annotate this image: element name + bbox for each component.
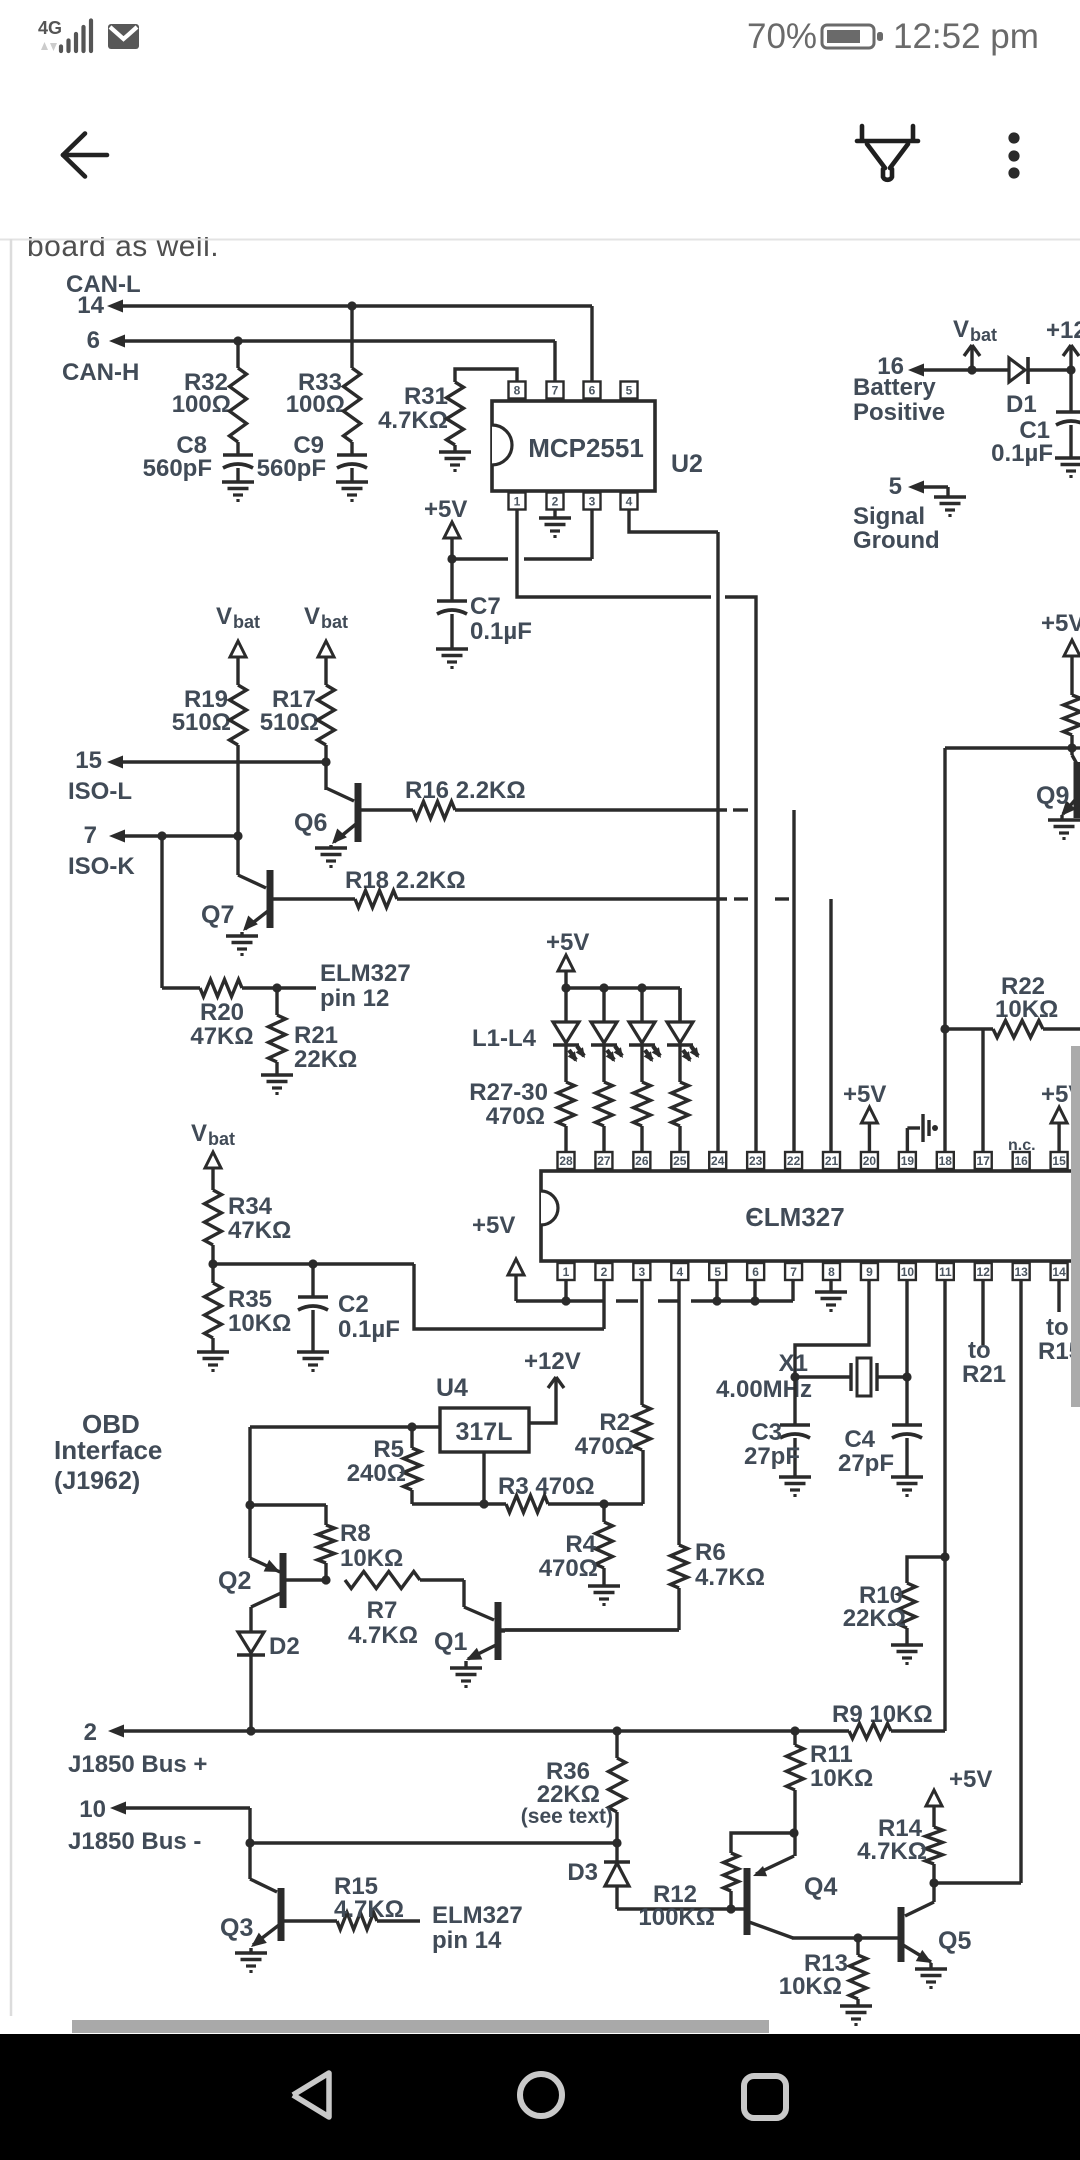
circuit schematic xyxy=(54,271,1080,2025)
svg-text:22KΩ: 22KΩ xyxy=(537,1781,600,1808)
junction C2 bus xyxy=(308,1259,317,1268)
svg-text:R31: R31 xyxy=(404,383,448,410)
svg-text:J1850 Bus -: J1850 Bus - xyxy=(68,1828,201,1855)
svg-text:R21: R21 xyxy=(962,1361,1006,1388)
LED L2 xyxy=(591,988,623,1082)
wire MCP2551 pin4 to ELM pin24 xyxy=(629,509,718,1152)
svg-text:4.7KΩ: 4.7KΩ xyxy=(378,407,448,434)
resistor R23 pullup xyxy=(1064,695,1080,748)
transistor Q4 xyxy=(745,1856,837,1938)
svg-text:R20: R20 xyxy=(200,999,244,1026)
diode D1 xyxy=(1006,357,1071,418)
resistor R6 4.7KΩ xyxy=(505,1539,765,1630)
svg-text:bat: bat xyxy=(321,612,348,632)
resistor R29 470Ω xyxy=(634,1082,651,1151)
svg-text:R11: R11 xyxy=(810,1741,853,1768)
ground ELM pin8 xyxy=(815,1280,847,1311)
ground R4 xyxy=(588,1586,620,1605)
power +5V ELM pin15 xyxy=(1041,1081,1080,1152)
junction R10 pin11 xyxy=(940,1552,949,1561)
transistor Q9 xyxy=(1036,748,1077,818)
resistor R21 22KΩ xyxy=(269,988,358,1075)
wire 317L input xyxy=(250,1425,440,1428)
ground R13 xyxy=(840,2006,872,2025)
svg-text:pin 14: pin 14 xyxy=(432,1927,502,1954)
svg-text:8: 8 xyxy=(514,384,521,398)
junction J1850+ R11 xyxy=(790,1726,799,1735)
resistor R8 10KΩ xyxy=(318,1520,404,1580)
svg-text:25: 25 xyxy=(673,1154,687,1168)
svg-text:22KΩ: 22KΩ xyxy=(843,1605,906,1632)
svg-text:(see text): (see text) xyxy=(521,1805,613,1828)
svg-text:to: to xyxy=(968,1337,991,1364)
svg-text:Q5: Q5 xyxy=(938,1927,971,1955)
diode D2 xyxy=(237,1632,300,1731)
junction R8 base xyxy=(321,1575,330,1584)
svg-text:V: V xyxy=(304,603,320,630)
net +12V arrow xyxy=(524,1348,581,1423)
ground R31 xyxy=(439,445,471,471)
wire ELM pin11 column xyxy=(943,1280,946,1731)
net Vbat R19 xyxy=(216,603,260,685)
resistor R7 4.7KΩ xyxy=(345,1572,464,1650)
svg-text:Battery: Battery xyxy=(853,374,936,401)
wire ELM pin9 crystal xyxy=(795,1280,869,1377)
resistor R11 10KΩ xyxy=(787,1731,874,1856)
resistor R16 2.2KΩ xyxy=(405,777,727,819)
svg-text:560pF: 560pF xyxy=(257,455,326,482)
ground Q9 xyxy=(1048,815,1080,839)
svg-text:27pF: 27pF xyxy=(838,1450,894,1477)
wire R5 to ADJ xyxy=(412,1452,484,1504)
svg-text:+5V: +5V xyxy=(949,1766,992,1793)
svg-text:+5V: +5V xyxy=(472,1212,515,1239)
wire R33 top xyxy=(350,306,353,368)
resistor R15 4.7KΩ xyxy=(334,1873,420,1930)
svg-text:12:52 pm: 12:52 pm xyxy=(893,17,1039,56)
svg-text:D1: D1 xyxy=(1006,391,1037,418)
port 2 J1850+ xyxy=(68,1719,849,1778)
svg-text:21: 21 xyxy=(825,1154,839,1168)
crystal X1 4.00MHz xyxy=(716,1350,907,1403)
port 7 ISO-K xyxy=(68,822,238,880)
ground C2 xyxy=(297,1352,329,1371)
svg-text:Q1: Q1 xyxy=(434,1628,467,1656)
regulator U4 317L xyxy=(436,1374,529,1452)
node R27-30 label xyxy=(469,1079,548,1130)
svg-text:C3: C3 xyxy=(751,1419,782,1446)
svg-text:R7: R7 xyxy=(367,1597,398,1624)
resistor R13 10KΩ xyxy=(779,1938,867,2006)
svg-text:U4: U4 xyxy=(436,1374,468,1402)
svg-text:47KΩ: 47KΩ xyxy=(190,1023,253,1050)
svg-text:6: 6 xyxy=(87,327,100,354)
svg-text:n.c.: n.c. xyxy=(1008,1137,1036,1154)
svg-text:26: 26 xyxy=(635,1154,649,1168)
capacitor C9 560pF xyxy=(257,432,367,482)
junction R22 pin18 xyxy=(940,1024,949,1033)
svg-text:R4: R4 xyxy=(565,1531,596,1558)
svg-text:C2: C2 xyxy=(338,1291,369,1318)
svg-text:3: 3 xyxy=(639,1265,646,1279)
port 5 signal ground xyxy=(853,473,948,554)
wire pin6 CAN-L xyxy=(590,306,593,382)
node ELM327 pin 14 label xyxy=(432,1902,523,1954)
ground signal xyxy=(934,497,966,516)
ground R10 xyxy=(891,1645,923,1664)
svg-text:D3: D3 xyxy=(567,1859,598,1886)
svg-text:Positive: Positive xyxy=(853,399,945,426)
svg-text:0.1µF: 0.1µF xyxy=(338,1316,400,1343)
port 16 battery positive xyxy=(853,353,1009,426)
power +5V Q9 xyxy=(1041,610,1080,695)
svg-text:22KΩ: 22KΩ xyxy=(294,1046,357,1073)
svg-text:ELM327: ELM327 xyxy=(432,1902,523,1929)
svg-text:470Ω: 470Ω xyxy=(575,1433,634,1460)
svg-text:Q3: Q3 xyxy=(220,1914,253,1942)
svg-text:+5V: +5V xyxy=(1041,610,1080,637)
svg-text:5: 5 xyxy=(626,384,633,398)
svg-text:+5V: +5V xyxy=(546,929,589,956)
ground C1 xyxy=(1055,458,1080,477)
ground MCP2551 pin2 xyxy=(539,509,571,537)
ground C4 xyxy=(891,1477,923,1496)
resistor R10 22KΩ xyxy=(843,1557,945,1645)
wire ELM pin10 crystal xyxy=(905,1280,908,1377)
svg-text:9: 9 xyxy=(866,1265,873,1279)
transistor Q7 xyxy=(201,870,355,931)
svg-text:C7: C7 xyxy=(470,593,501,620)
transistor Q6 xyxy=(294,783,413,844)
svg-text:ЄLM327: ЄLM327 xyxy=(745,1202,844,1232)
wire R34 R35 bus to C2 xyxy=(213,1245,604,1329)
junction Q2 R8 xyxy=(245,1500,254,1509)
svg-text:10: 10 xyxy=(79,1796,106,1823)
junction X1 right xyxy=(902,1372,911,1381)
svg-text:6: 6 xyxy=(752,1265,759,1279)
svg-text:J1850 Bus +: J1850 Bus + xyxy=(68,1751,207,1778)
junction ISO-L R17 xyxy=(321,757,330,766)
svg-text:2: 2 xyxy=(84,1719,97,1746)
svg-text:4.00MHz: 4.00MHz xyxy=(716,1376,812,1403)
ground Q7 xyxy=(226,932,258,955)
svg-text:27: 27 xyxy=(597,1154,611,1168)
wire pin7 CAN-H xyxy=(553,341,556,382)
junction R4 xyxy=(599,1499,608,1508)
wire J1850- bus xyxy=(250,1808,617,1879)
wire R16 dashes to ELM pin22 xyxy=(733,810,794,1152)
svg-text:4.7KΩ: 4.7KΩ xyxy=(857,1838,927,1865)
svg-text:15: 15 xyxy=(75,747,102,774)
svg-text:317L: 317L xyxy=(456,1418,513,1446)
capacitor C8 560pF xyxy=(143,432,253,482)
node OBD interface label xyxy=(54,1409,162,1495)
wire CAN-L pin 14 xyxy=(107,300,592,313)
junction R5 input xyxy=(407,1422,416,1431)
junction J1850+ D2 xyxy=(246,1726,255,1735)
svg-text:X1: X1 xyxy=(779,1350,808,1377)
resistor R4 470Ω xyxy=(539,1504,613,1586)
svg-text:+12V: +12V xyxy=(524,1348,581,1375)
svg-text:ELM327: ELM327 xyxy=(320,960,411,987)
svg-text:13: 13 xyxy=(1014,1265,1028,1279)
resistor R12 100KΩ xyxy=(638,1833,794,1931)
navigation bar xyxy=(0,2034,1080,2160)
svg-text:4.7KΩ: 4.7KΩ xyxy=(348,1622,418,1649)
wire ELM pin4 to R6 xyxy=(677,1280,680,1545)
svg-text:70%: 70% xyxy=(747,17,817,56)
toolbar xyxy=(63,126,1020,180)
svg-text:7: 7 xyxy=(790,1265,797,1279)
node n.c. pin16 xyxy=(1008,1137,1036,1154)
svg-text:MCP2551: MCP2551 xyxy=(528,433,644,463)
svg-text:100KΩ: 100KΩ xyxy=(638,1904,715,1931)
svg-text:23: 23 xyxy=(749,1154,763,1168)
power +5V ELM pin1 xyxy=(472,1212,524,1301)
page edge xyxy=(10,239,13,2016)
svg-text:8: 8 xyxy=(828,1265,835,1279)
svg-text:6: 6 xyxy=(589,384,596,398)
junction ISO-K R20 xyxy=(157,831,166,840)
svg-text:510Ω: 510Ω xyxy=(260,709,319,736)
svg-text:14: 14 xyxy=(1052,1265,1066,1279)
svg-text:R21: R21 xyxy=(294,1022,338,1049)
capacitor C2 0.1µF xyxy=(298,1264,400,1352)
resistor R22 10KΩ xyxy=(945,973,1080,1038)
svg-text:ISO-K: ISO-K xyxy=(68,853,135,880)
LED L3 xyxy=(629,988,661,1082)
svg-text:4: 4 xyxy=(676,1265,683,1279)
svg-text:R9 10KΩ: R9 10KΩ xyxy=(832,1701,933,1728)
wire 317L input column xyxy=(248,1427,251,1558)
power +5V MCP xyxy=(424,496,467,559)
LED L1 xyxy=(553,988,585,1082)
wire Q4 emitter bus xyxy=(792,1936,898,1939)
ground C3 xyxy=(779,1477,811,1496)
U2 reference label xyxy=(671,450,703,478)
svg-text:10KΩ: 10KΩ xyxy=(340,1545,403,1572)
junction +12 C1 xyxy=(1066,365,1075,374)
svg-text:14: 14 xyxy=(77,292,104,319)
wire MCP2551 pin1 to ELM pin23 xyxy=(517,509,756,1152)
transistor Q3 xyxy=(220,1879,337,1947)
wire R18 dashes to ELM pin21 xyxy=(734,899,831,1152)
resistor R20 47KΩ xyxy=(162,980,316,1051)
resistor R30 470Ω xyxy=(672,1082,689,1151)
net Vbat arrow xyxy=(953,316,997,370)
svg-text:3: 3 xyxy=(589,495,596,509)
wire ELM pin3 to R2 xyxy=(640,1280,643,1405)
ground R21 xyxy=(261,1075,293,1094)
svg-text:+5V: +5V xyxy=(843,1081,886,1108)
svg-text:1: 1 xyxy=(563,1265,570,1279)
wire ELM pin17 up xyxy=(981,1029,984,1152)
svg-text:11: 11 xyxy=(939,1265,952,1279)
svg-text:2: 2 xyxy=(552,495,559,509)
junction CAN-L R33 xyxy=(347,301,356,310)
svg-text:R18 2.2KΩ: R18 2.2KΩ xyxy=(345,867,466,894)
svg-text:R34: R34 xyxy=(228,1193,273,1220)
svg-text:(J1962): (J1962) xyxy=(54,1467,140,1495)
junction R34 R35 xyxy=(208,1259,217,1268)
resistor R9 10KΩ xyxy=(832,1701,945,1739)
svg-text:+12: +12 xyxy=(1046,317,1080,344)
power +5V ELM pin20 xyxy=(843,1081,886,1152)
svg-text:7: 7 xyxy=(84,822,97,849)
svg-text:4G: 4G xyxy=(38,18,62,38)
op-amp U2 MCP2551 CAN transceiver xyxy=(492,382,655,510)
transistor Q5 xyxy=(899,1883,971,1963)
capacitor ELM pin19 trim xyxy=(907,1114,938,1152)
svg-text:7: 7 xyxy=(552,384,559,398)
junction J1850+ R36 xyxy=(612,1726,621,1735)
resistor R2 470Ω xyxy=(575,1405,651,1460)
svg-text:D2: D2 xyxy=(269,1633,300,1660)
wire R14 to pin13 xyxy=(934,1881,1021,1884)
svg-text:V: V xyxy=(191,1120,207,1147)
svg-text:pin 12: pin 12 xyxy=(320,985,389,1012)
svg-text:10KΩ: 10KΩ xyxy=(810,1765,873,1792)
net Vbat R17 xyxy=(304,603,348,685)
ground Q3 xyxy=(235,1948,267,1972)
svg-text:4.7KΩ: 4.7KΩ xyxy=(334,1896,404,1923)
status bar xyxy=(38,17,1039,56)
power +5V LEDs xyxy=(546,929,589,988)
svg-text:to: to xyxy=(1046,1314,1069,1341)
junction R14 Q5 xyxy=(929,1878,938,1887)
junction ISO-K Q7 xyxy=(233,831,242,840)
svg-text:L1-L4: L1-L4 xyxy=(472,1025,537,1052)
capacitor C7 0.1µF xyxy=(437,559,532,649)
junction R12 R11 xyxy=(789,1828,798,1837)
wire R20 column xyxy=(160,836,163,988)
svg-text:R6: R6 xyxy=(695,1539,726,1566)
wire CAN-H pin 6 xyxy=(109,335,555,348)
svg-text:510Ω: 510Ω xyxy=(172,709,231,736)
wire R19 to Q7 xyxy=(236,745,239,875)
svg-text:12: 12 xyxy=(977,1265,991,1279)
svg-text:16: 16 xyxy=(1014,1154,1028,1168)
resistor R14 4.7KΩ xyxy=(857,1815,942,1883)
wire +5V to MCP2551 pin3 xyxy=(452,510,592,559)
document text xyxy=(0,196,1080,263)
svg-text:18: 18 xyxy=(939,1154,953,1168)
resistor R18 2.2KΩ xyxy=(345,867,727,908)
svg-text:0.1µF: 0.1µF xyxy=(470,618,532,645)
wire ELM bottom +5V bus xyxy=(516,1280,793,1329)
junction R20 R21 xyxy=(272,983,281,992)
svg-text:20: 20 xyxy=(863,1154,877,1168)
svg-text:100Ω: 100Ω xyxy=(172,391,231,418)
power +5V R14 xyxy=(926,1766,992,1827)
ground C8 xyxy=(222,482,254,501)
transistor Q2 xyxy=(218,1553,326,1608)
junction Q9 xyxy=(1067,743,1076,752)
svg-text:V: V xyxy=(216,603,232,630)
svg-text:bat: bat xyxy=(233,612,260,632)
ground C9 xyxy=(336,482,368,501)
svg-text:Q2: Q2 xyxy=(218,1567,251,1595)
svg-text:Interface: Interface xyxy=(54,1435,162,1465)
junction +5V C7 xyxy=(447,554,456,563)
vertical scrollbar xyxy=(1071,1046,1080,1407)
node L1-L4 label xyxy=(472,1025,537,1052)
svg-text:5: 5 xyxy=(714,1265,721,1279)
svg-text:4: 4 xyxy=(626,495,633,509)
capacitor C3 27pF xyxy=(744,1377,810,1477)
svg-text:470Ω: 470Ω xyxy=(539,1555,598,1582)
svg-text:Q7: Q7 xyxy=(201,901,234,929)
resistor R27 470Ω xyxy=(558,1082,575,1151)
wire R17 to Q6 base xyxy=(324,745,327,790)
port 15 ISO-L xyxy=(68,747,326,805)
wire Q1 collector xyxy=(500,1628,679,1631)
svg-text:bat: bat xyxy=(208,1129,235,1149)
resistor R3 470Ω xyxy=(484,1450,643,1513)
node CAN-H label xyxy=(62,327,139,386)
wire ELM pin12 stub xyxy=(962,1280,1006,1388)
svg-text:R5: R5 xyxy=(373,1436,404,1463)
wire R8 top xyxy=(250,1505,326,1525)
junction J1850- Q3 xyxy=(245,1838,254,1847)
net Vbat R34 xyxy=(191,1120,235,1190)
net +12 arrow xyxy=(1046,317,1080,370)
wire ELM pin14 stub xyxy=(1038,1280,1080,1365)
svg-text:V: V xyxy=(953,316,969,343)
resistor R34 47KΩ xyxy=(205,1190,292,1245)
svg-text:4.7KΩ: 4.7KΩ xyxy=(695,1564,765,1591)
svg-text:R27-30: R27-30 xyxy=(469,1079,548,1106)
resistor R19 510Ω xyxy=(172,685,247,745)
wire Q2 emitter to D2 xyxy=(249,1607,252,1632)
resistor R32 100Ω xyxy=(172,341,247,442)
svg-text:15: 15 xyxy=(1052,1154,1066,1168)
svg-text:R2: R2 xyxy=(599,1409,630,1436)
op-amp U1 ELM327 interpreter IC xyxy=(541,1152,1080,1280)
ground R35 xyxy=(197,1352,229,1371)
resistor R5 240Ω xyxy=(347,1427,421,1504)
ground Q1 xyxy=(450,1661,482,1687)
wire ELM pin13 column xyxy=(1019,1280,1022,1883)
svg-text:17: 17 xyxy=(977,1154,991,1168)
svg-text:10KΩ: 10KΩ xyxy=(228,1310,291,1337)
svg-text:470Ω: 470Ω xyxy=(486,1103,545,1130)
junction X1 left xyxy=(790,1372,799,1381)
svg-text:U2: U2 xyxy=(671,450,703,478)
resistor R35 10KΩ xyxy=(205,1283,292,1352)
junction Vbat xyxy=(967,365,976,374)
diode D3 xyxy=(567,1843,630,1909)
svg-text:19: 19 xyxy=(901,1154,915,1168)
svg-text:47KΩ: 47KΩ xyxy=(228,1217,291,1244)
wire Q9 collector net xyxy=(945,748,1080,1152)
horizontal scrollbar xyxy=(72,2020,769,2033)
svg-text:CAN-H: CAN-H xyxy=(62,359,139,386)
svg-text:R35: R35 xyxy=(228,1286,272,1313)
junction R13 xyxy=(853,1933,862,1942)
junction 317L adj xyxy=(479,1499,488,1508)
resistor R36 22KΩ xyxy=(521,1731,626,1843)
ground Q5 xyxy=(915,1963,947,1988)
svg-text:Signal: Signal xyxy=(853,503,925,530)
node ELM327 pin 12 label xyxy=(320,960,411,1012)
svg-text:1: 1 xyxy=(514,495,521,509)
ground C7 xyxy=(436,649,468,668)
resistor R31 4.7KΩ xyxy=(378,369,517,445)
node CAN-L label xyxy=(66,271,141,319)
svg-text:560pF: 560pF xyxy=(143,455,212,482)
resistor R28 470Ω xyxy=(596,1082,613,1151)
